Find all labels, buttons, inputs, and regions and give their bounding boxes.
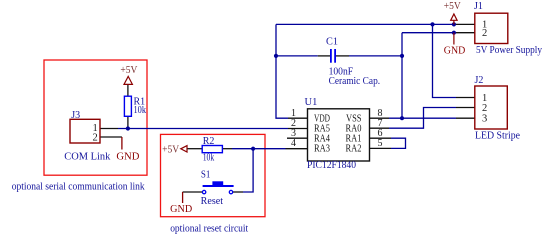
power flag +5V (top right) [444,1,462,24]
svg-text:J1: J1 [474,1,483,12]
wire reset net to U1 RA3 [232,148,286,150]
junction at GND flag / J1 pin2 [452,31,456,35]
wire R2 right stub [222,148,232,150]
wire J2 pin1 stub [456,97,475,99]
svg-text:3: 3 [482,113,487,124]
svg-text:5V Power Supply: 5V Power Supply [476,45,542,56]
svg-text:optional serial communication: optional serial communication link [12,181,145,192]
svg-text:GND: GND [444,46,466,57]
wire R1 top stem [127,84,129,96]
svg-text:PIC12F1840: PIC12F1840 [307,160,356,171]
optional reset circuit red box [161,134,266,216]
svg-text:J2: J2 [475,75,484,86]
power flag GND (top right) [444,33,466,57]
svg-text:+5V: +5V [444,1,462,12]
svg-text:5: 5 [378,138,383,149]
capacitor C1 [326,37,380,87]
wire U1 pin5 RA2 stub [370,147,392,149]
wire U1 pin3 RA4 stub [287,137,308,139]
wire GND top link to J1 pin2 [402,32,456,34]
wire J2 pin3 stub [456,117,475,119]
wire U1 pin4 RA3 stub [286,148,308,150]
wire U1 pin6 RA1 stub [370,137,392,139]
switch S1 [201,170,234,207]
wire C1 left pin stub [318,55,331,57]
svg-text:RA3: RA3 [314,144,330,155]
resistor R2 [202,136,222,163]
connector J3 [64,110,110,163]
connector J2 [475,75,521,141]
resistor R1 [124,96,146,116]
wire RA1 to RA2 U-link [391,138,406,148]
svg-text:Ceramic Cap.: Ceramic Cap. [329,76,381,87]
svg-text:10k: 10k [134,105,147,116]
svg-text:U1: U1 [305,97,318,108]
wire U1 pin2 RA5 stub [288,128,308,130]
wire RA0 to J2 pin2 [389,108,456,129]
svg-text:RA2: RA2 [346,144,362,155]
svg-text:+5V: +5V [120,65,138,76]
svg-text:COM Link: COM Link [64,152,110,163]
wire GND vertical [401,33,403,119]
svg-text:C1: C1 [326,37,338,48]
wire VSS line to J2 pin3 [389,117,456,119]
junction at R1 bottom / serial net [126,126,130,130]
svg-text:GND: GND [170,204,192,215]
wire C1 right pin stub [336,55,349,57]
svg-text:GND: GND [116,152,139,163]
svg-text:optional reset circuit: optional reset circuit [170,224,248,235]
junction at VSS line / GND vertical [400,116,404,120]
power flag +5V (above R1) [120,65,138,84]
wire J1 pin1 stub [456,23,475,25]
wire U1 pin1 VDD stub [288,117,308,119]
svg-text:J3: J3 [71,110,80,121]
wire S1 left stub [183,191,203,193]
wire R1 bottom stem [127,116,129,128]
svg-text:2: 2 [482,28,487,39]
connector J1 [474,1,542,56]
IC U1 PIC12F1840 [291,97,383,171]
wire serial net J3 to U1 RA5 [118,128,288,130]
wire J3 pin1 stub [100,128,118,130]
junction at R2 right / S1 drop [251,147,255,151]
svg-text:S1: S1 [201,170,211,181]
wire J1 pin2 stub [456,32,475,34]
svg-text:2: 2 [93,133,98,144]
wire +5V left drop to U1 VDD [276,24,288,118]
wire S1 GND stem [182,192,184,203]
svg-text:Reset: Reset [201,196,224,207]
wire C1 left link [276,55,318,57]
svg-text:R2: R2 [203,136,215,147]
svg-text:4: 4 [291,138,296,149]
svg-text:+5V: +5V [162,145,180,156]
junction at C1 right / GND vertical [400,54,404,58]
wire J2 pin2 stub [456,107,475,109]
optional serial communication link red box [44,60,147,175]
wire J3 GND stem [121,137,123,150]
wire U1 pin8 VSS stub [370,117,390,119]
wire U1 pin7 RA0 stub [370,127,390,129]
svg-text:10k: 10k [203,153,215,164]
wire +5V to R2 left [187,148,202,150]
power flag +5V (left of R2) [162,145,187,156]
junction at +5V flag / J1 pin1 [452,22,456,26]
wire reset drop to S1 [243,149,253,192]
junction at C1 left / VDD drop [274,54,278,58]
wire S1 right stub [233,191,243,193]
wire C1 right to GND vertical [349,55,402,57]
wire J3 pin2 stub [100,136,122,138]
wire +5V top rail [276,23,456,25]
svg-text:LED Stripe: LED Stripe [475,130,521,141]
wire +5V drop to J2 pin1 [433,24,457,97]
junction at +5V rail / J2 drop [430,22,434,26]
